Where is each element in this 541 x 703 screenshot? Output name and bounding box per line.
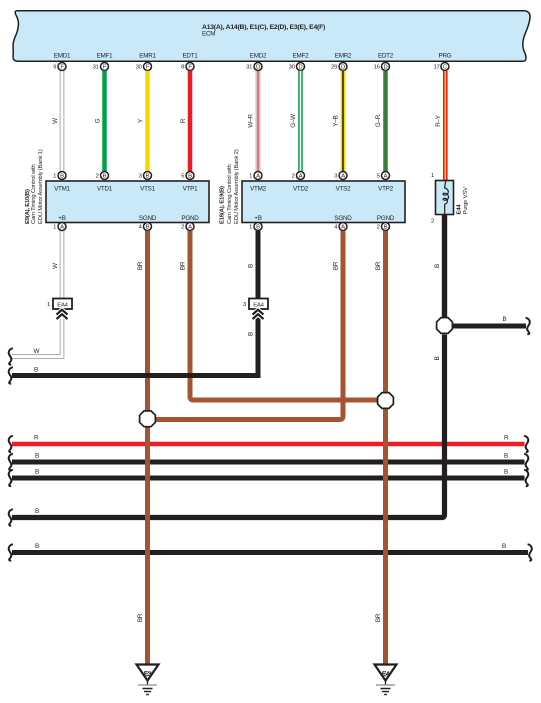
wire BR PGND2 down through junction J2 xyxy=(375,231,386,393)
svg-text:EDU Motor Assembly (Bank 2): EDU Motor Assembly (Bank 2) xyxy=(234,149,240,224)
wire BR junction J1 down to ground E3 xyxy=(137,426,148,664)
svg-text:G: G xyxy=(95,118,102,123)
svg-text:R: R xyxy=(504,435,509,442)
svg-text:B: B xyxy=(35,543,39,550)
svg-text:B: B xyxy=(434,356,441,360)
wire B below EA4-3 to corner and left edge xyxy=(12,309,258,376)
svg-text:R–Y: R–Y xyxy=(435,114,442,127)
EDU box2 pin 1(B) +B xyxy=(249,223,262,231)
svg-text:VTM1: VTM1 xyxy=(54,186,71,193)
ECM pin EMD2 31(D) xyxy=(246,63,262,71)
junction J3 (E44 ground splice) xyxy=(437,318,453,334)
svg-text:D: D xyxy=(298,65,302,71)
ECM pin EDT1 8(F) xyxy=(181,63,194,71)
svg-text:EDT1: EDT1 xyxy=(182,53,198,60)
svg-text:EMF2: EMF2 xyxy=(293,53,310,60)
ECM pin EMF2 30(D) xyxy=(289,63,305,71)
svg-text:SGND: SGND xyxy=(139,215,157,222)
svg-text:B: B xyxy=(188,174,192,180)
break symbol B wire left edge xyxy=(9,367,13,383)
break symbol bus B2 left edge xyxy=(9,470,13,486)
box2 side label E18(A), E19(B) Cam Timing Control with EDU Motor Assembly (Bank 2) xyxy=(219,149,240,224)
svg-text:30: 30 xyxy=(136,65,143,71)
wire W-R EMD2 to VTM2 xyxy=(248,71,260,172)
svg-text:1: 1 xyxy=(431,173,434,179)
svg-text:EMR1: EMR1 xyxy=(139,53,156,60)
svg-text:2: 2 xyxy=(292,174,295,180)
svg-text:E18(A), E19(B): E18(A), E19(B) xyxy=(219,186,225,224)
ECM pin EMR2 29(D) xyxy=(331,63,347,71)
ECM pin labels row xyxy=(54,53,452,60)
svg-text:G–R: G–R xyxy=(375,114,382,127)
wire Y-B EMR2 to VTS2 xyxy=(333,71,344,172)
svg-text:1: 1 xyxy=(53,174,56,180)
EDU Motor Assembly box2 (Bank 2) xyxy=(242,181,405,223)
svg-text:B: B xyxy=(146,225,150,231)
svg-text:PGND: PGND xyxy=(181,215,199,222)
svg-text:17: 17 xyxy=(434,65,440,71)
svg-text:1: 1 xyxy=(249,174,252,180)
svg-text:EMF1: EMF1 xyxy=(97,53,114,60)
svg-text:30: 30 xyxy=(289,65,296,71)
wire BR SGND2 down, left to junction J1 xyxy=(156,231,343,420)
svg-text:+B: +B xyxy=(254,215,261,222)
EDU box1 pin 3(B) VTS1 xyxy=(139,172,152,180)
wire W EMD1 to VTM1 xyxy=(52,71,64,172)
svg-text:EMR2: EMR2 xyxy=(335,53,352,60)
svg-text:B: B xyxy=(35,469,39,476)
svg-text:1: 1 xyxy=(53,225,56,231)
wire Y EMR1 to VTS1 xyxy=(138,71,148,172)
ECM pin EDT2 16(D) xyxy=(374,63,390,71)
wire G-W EMF2 to VTD2 xyxy=(290,71,301,172)
wire BR SGND1 down to junction xyxy=(137,231,148,411)
svg-text:Purge VSV: Purge VSV xyxy=(463,187,469,215)
ground E3 xyxy=(137,665,159,695)
ECM pin EMR1 30(F) xyxy=(136,63,152,71)
EDU box1 pin 5(B) VTP1 xyxy=(181,172,194,180)
svg-text:BR: BR xyxy=(137,613,144,622)
break symbol bus R right edge xyxy=(524,436,528,452)
svg-text:VTS2: VTS2 xyxy=(336,186,351,193)
svg-text:EDU Motor Assembly (Bank 1): EDU Motor Assembly (Bank 1) xyxy=(38,149,44,224)
svg-text:B: B xyxy=(35,508,39,515)
svg-text:A: A xyxy=(60,225,64,231)
ECM pin PRG 17(C) xyxy=(434,63,449,71)
box1 side label E9(A), E10(B) Cam Timing Control with EDU Motor Assembly (Bank 1) xyxy=(25,149,44,224)
svg-text:VTS1: VTS1 xyxy=(140,186,155,193)
svg-text:EMD2: EMD2 xyxy=(250,53,267,60)
svg-text:A: A xyxy=(341,225,345,231)
connector EA4 pin 1 xyxy=(47,299,72,310)
svg-text:SGND: SGND xyxy=(334,215,352,222)
junction J2 (PGND splice) xyxy=(378,393,394,409)
shield chevron below EA4-3 xyxy=(253,310,264,319)
svg-text:EA4: EA4 xyxy=(57,303,68,309)
svg-text:A: A xyxy=(256,174,260,180)
EDU box2 pin 1(A) VTM2 xyxy=(249,172,262,180)
svg-text:B: B xyxy=(34,367,38,374)
svg-text:1: 1 xyxy=(47,302,50,308)
EDU box1 pin 4(B) SGND xyxy=(139,223,152,231)
svg-text:ECM: ECM xyxy=(202,31,215,38)
svg-text:D: D xyxy=(256,65,260,71)
shield chevron below EA4-1 xyxy=(57,310,68,319)
svg-text:B: B xyxy=(502,543,506,550)
svg-text:31: 31 xyxy=(246,65,252,71)
svg-text:VTM2: VTM2 xyxy=(250,186,267,193)
E44 Purge VSV xyxy=(431,173,469,225)
svg-text:A: A xyxy=(299,174,303,180)
svg-text:BR: BR xyxy=(180,261,187,270)
svg-text:D: D xyxy=(383,65,387,71)
svg-text:W: W xyxy=(52,263,59,269)
svg-text:BR: BR xyxy=(137,261,144,270)
svg-text:VTP1: VTP1 xyxy=(183,186,198,193)
wire B E44 pin2 down to junction J3 xyxy=(434,215,445,319)
EDU box2 pin 3(A) VTS2 xyxy=(334,172,347,180)
ground E4 xyxy=(375,665,397,695)
wire BR junction J2 down to ground E4 xyxy=(375,409,386,665)
svg-text:A13(A), A14(B), E1(C), E2(D),: A13(A), A14(B), E1(C), E2(D), E3(E), E4(… xyxy=(202,24,325,31)
EDU box2 pin 2(A) VTD2 xyxy=(292,172,305,180)
break symbol bus B4 left edge xyxy=(9,509,13,525)
svg-text:E9(A), E10(B): E9(A), E10(B) xyxy=(25,189,31,224)
wire W +B1 to EA4-1 xyxy=(52,231,64,299)
svg-text:BR: BR xyxy=(375,261,382,270)
svg-text:B: B xyxy=(384,225,388,231)
svg-text:A: A xyxy=(384,174,388,180)
wire BR PGND1 down, right to junction J2 xyxy=(180,231,378,400)
svg-text:B: B xyxy=(248,264,255,268)
bus wire B2 full width xyxy=(12,469,525,479)
svg-text:2: 2 xyxy=(431,218,434,224)
svg-text:R: R xyxy=(34,435,39,442)
svg-text:A: A xyxy=(341,174,345,180)
svg-text:B: B xyxy=(256,225,260,231)
svg-text:W: W xyxy=(34,348,40,355)
svg-text:16: 16 xyxy=(374,65,381,71)
ECM pin EMD1 9(F) xyxy=(53,63,66,71)
svg-text:9: 9 xyxy=(53,65,56,71)
svg-text:E4: E4 xyxy=(382,671,390,678)
svg-text:B: B xyxy=(103,174,107,180)
svg-text:B: B xyxy=(434,264,441,268)
svg-text:EDT2: EDT2 xyxy=(378,53,394,60)
svg-text:VTD2: VTD2 xyxy=(293,186,309,193)
svg-text:BR: BR xyxy=(375,613,382,622)
break symbol J3 wire right edge xyxy=(526,318,530,334)
svg-text:2: 2 xyxy=(181,225,184,231)
svg-text:G–W: G–W xyxy=(290,114,297,128)
svg-text:BR: BR xyxy=(333,261,340,270)
EDU box2 pin 2(B) PGND xyxy=(377,223,390,231)
break symbol bus B5 right edge xyxy=(528,544,532,560)
svg-text:D: D xyxy=(341,65,345,71)
svg-text:W: W xyxy=(52,118,59,124)
wire B junction J3 to right edge xyxy=(453,316,527,326)
svg-text:EA4: EA4 xyxy=(253,303,264,309)
svg-text:31: 31 xyxy=(93,65,99,71)
wire B from E44 junction down to bus corner xyxy=(12,335,445,518)
svg-text:E44: E44 xyxy=(457,204,463,215)
svg-text:+B: +B xyxy=(58,215,65,222)
EDU Motor Assembly box1 (Bank 1) xyxy=(46,181,209,223)
break symbol bus B1 left edge xyxy=(9,454,13,470)
svg-text:1: 1 xyxy=(249,225,252,231)
svg-text:Cam Timing Control with: Cam Timing Control with xyxy=(31,164,37,224)
bus wire R full width xyxy=(12,435,525,445)
svg-text:R: R xyxy=(180,118,187,123)
svg-text:B: B xyxy=(504,453,508,460)
svg-text:EMD1: EMD1 xyxy=(54,53,71,60)
svg-text:Cam Timing Control with: Cam Timing Control with xyxy=(227,164,233,224)
svg-text:B: B xyxy=(248,332,255,336)
svg-text:2: 2 xyxy=(96,174,99,180)
ECM pin EMF1 31(F) xyxy=(93,63,109,71)
wire B +B2 to EA4-3 xyxy=(248,231,259,299)
wire W below EA4-1 to corner and left edge xyxy=(12,309,64,359)
svg-text:W–R: W–R xyxy=(248,114,255,128)
svg-text:B: B xyxy=(60,174,64,180)
bus wire B1 full width xyxy=(12,453,525,463)
wire R EDT1 to VTP1 xyxy=(180,71,190,172)
svg-text:B: B xyxy=(35,453,39,460)
break symbol bus B1 right edge xyxy=(524,454,528,470)
bus wire B5 full width xyxy=(12,543,528,553)
svg-text:E3: E3 xyxy=(144,671,152,678)
EDU box1 pin 1(B) VTM1 xyxy=(53,172,66,180)
svg-text:VTD1: VTD1 xyxy=(97,186,113,193)
svg-text:VTP2: VTP2 xyxy=(378,186,393,193)
break symbol bus B2 right edge xyxy=(524,470,528,486)
svg-text:2: 2 xyxy=(377,225,380,231)
svg-text:B: B xyxy=(146,174,150,180)
EDU box1 pin 2(B) VTD1 xyxy=(96,172,109,180)
ECM connector block A13/A14/E1/E2/E3/E4 xyxy=(13,11,530,62)
junction J1 (SGND splice) xyxy=(140,411,156,427)
break symbol bus R left edge xyxy=(9,436,13,452)
svg-text:29: 29 xyxy=(331,65,337,71)
svg-text:PRG: PRG xyxy=(439,53,452,60)
svg-text:PGND: PGND xyxy=(377,215,395,222)
svg-text:A: A xyxy=(188,225,192,231)
svg-text:Y–B: Y–B xyxy=(333,115,340,126)
break symbol W wire left edge xyxy=(9,348,13,364)
connector EA4 pin 3 xyxy=(243,299,268,310)
EDU box2 pin 5(A) VTP2 xyxy=(377,172,390,180)
EDU box1 pin 2(A) PGND xyxy=(181,223,194,231)
break symbol bus B5 left edge xyxy=(9,544,13,560)
wire G-R EDT2 to VTP2 xyxy=(375,71,386,172)
wire G EMF1 to VTD1 xyxy=(95,71,105,172)
wire R-Y PRG to E44 pin1 xyxy=(435,71,445,181)
svg-text:B: B xyxy=(504,469,508,476)
EDU box2 pin 4(A) SGND xyxy=(334,223,347,231)
svg-text:B: B xyxy=(503,316,507,323)
EDU box1 pin 1(A) +B xyxy=(53,223,66,231)
